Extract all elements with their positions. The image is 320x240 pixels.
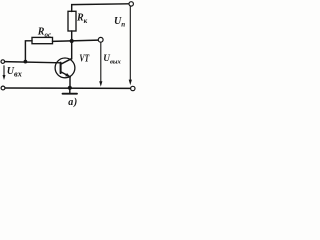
svg-text:Uп: Uп <box>114 16 125 28</box>
svg-text:Uвых: Uвых <box>103 53 121 66</box>
svg-text:а): а) <box>68 97 78 108</box>
svg-text:Rос: Rос <box>37 26 51 38</box>
svg-text:VT: VT <box>79 54 89 65</box>
svg-text:Uвх: Uвх <box>7 66 22 79</box>
svg-text:Rк: Rк <box>76 13 88 25</box>
